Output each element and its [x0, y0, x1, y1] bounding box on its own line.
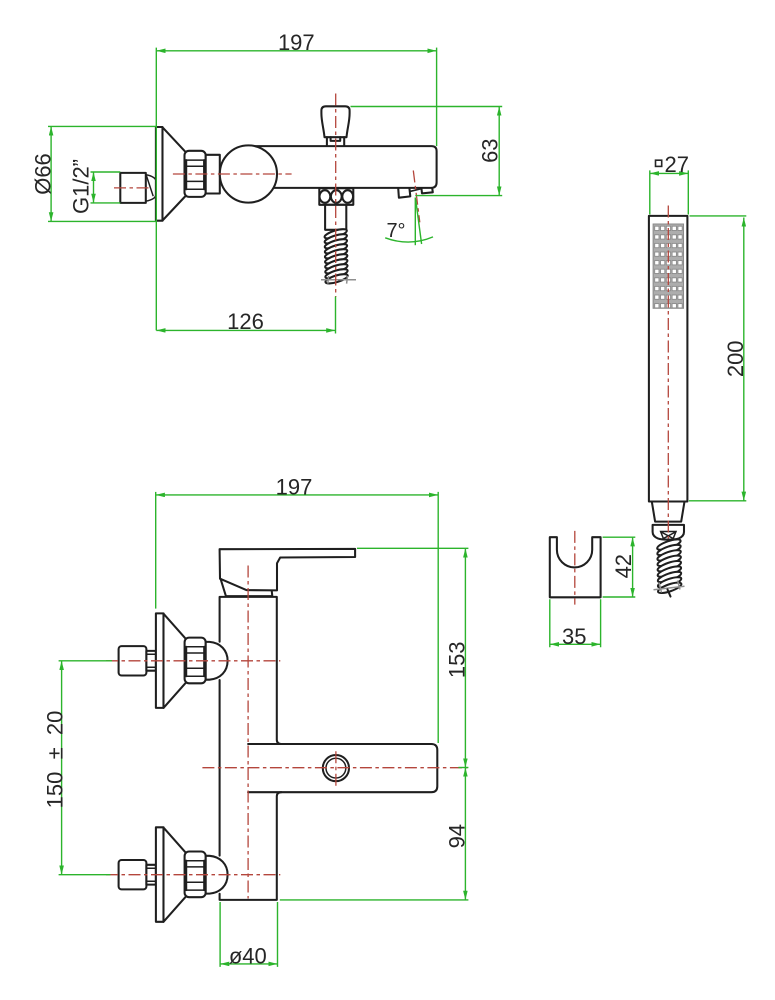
dim 153-94 junction tick: [458, 767, 468, 769]
escutcheon cone: [163, 127, 187, 220]
BRACKET: [550, 531, 601, 605]
dim diam40 extensions: [220, 902, 277, 967]
diverter knob: [321, 106, 349, 137]
nut inner cone: [661, 532, 676, 540]
svg-text:35: 35: [562, 624, 586, 649]
aerator: [323, 755, 349, 781]
lower inlet centerline: [106, 874, 280, 876]
svg-text:94: 94: [445, 824, 470, 848]
ball joint: [220, 145, 277, 202]
wand hose break symbol: [654, 581, 685, 593]
dim 63 line: [498, 107, 500, 196]
dim 35 line: [550, 643, 601, 645]
hose coupling: [319, 188, 353, 205]
spout axis centerline: [413, 171, 420, 223]
dim 200 extensions: [689, 216, 746, 501]
body column: [220, 597, 282, 900]
wand lower cone: [652, 502, 685, 522]
column centerline: [247, 566, 249, 899]
spout centerline: [202, 767, 467, 769]
body bar: [250, 146, 437, 188]
upper inlet adapter: [146, 651, 156, 671]
svg-text:7°: 7°: [386, 220, 405, 242]
dim 197 top line: [156, 50, 436, 52]
wall nipple G1/2: [120, 173, 146, 203]
spout bar: [248, 744, 437, 792]
dim 150pm20 line: [61, 661, 63, 875]
upper knurled nut: [185, 638, 206, 684]
wand coiled hose: [656, 537, 682, 595]
angle 7 reference vertical: [414, 198, 416, 246]
lower knurled nut: [185, 852, 206, 898]
svg-text:63: 63: [478, 138, 503, 162]
dim square27 line: [650, 172, 689, 174]
dim 94 bottom extension: [280, 899, 469, 901]
wand centerline: [667, 206, 669, 539]
svg-text:126: 126: [227, 309, 264, 334]
upper escutcheon cone: [164, 614, 187, 708]
spray face panel: [653, 224, 683, 308]
angle 7 arc: [385, 237, 433, 242]
handle collar: [221, 579, 273, 596]
svg-text:197: 197: [276, 474, 313, 499]
lower escutcheon plate: [156, 827, 164, 922]
dim 94 line: [464, 768, 466, 900]
dim 63 extensions: [351, 107, 503, 196]
hose break symbol: [321, 276, 356, 284]
dim 197 top left extension: [155, 48, 157, 331]
wand hose nut: [653, 525, 684, 540]
lower inlet adapter: [146, 865, 156, 885]
bracket centerline: [574, 531, 576, 605]
upper dome: [206, 642, 228, 680]
dim 42 line: [632, 537, 634, 597]
wall bracket: [550, 537, 601, 597]
dim diam40 line: [220, 963, 277, 965]
dim 197 top right extension: [436, 48, 438, 147]
dim 197 bottom right extension: [437, 492, 439, 743]
dim square27 extensions: [650, 170, 689, 214]
cylinder between nut and ball: [206, 155, 220, 194]
escutcheon plate: [156, 127, 163, 221]
dim 197 bottom line: [156, 494, 439, 496]
hose stem: [325, 205, 346, 230]
dim G1/2 extensions: [91, 172, 121, 203]
aerator centerline: [335, 751, 337, 787]
label square27: [656, 160, 662, 166]
svg-text:G1/2”: G1/2”: [69, 159, 94, 214]
dim 35 extensions: [550, 599, 601, 647]
upper inlet square fitting: [119, 646, 147, 675]
dim 150pm20 extensions: [59, 661, 112, 875]
handle cap and lever: [220, 549, 356, 591]
angle 7 slanted ray: [416, 199, 422, 244]
dim 153 extension top: [357, 547, 468, 549]
svg-text:ø40: ø40: [229, 943, 267, 968]
TOPVIEW: [114, 94, 437, 298]
svg-text:42: 42: [611, 554, 636, 578]
lower inlet square fitting: [119, 860, 147, 889]
dim 126 line: [156, 329, 335, 331]
svg-text:150 ± 20: 150 ± 20: [43, 711, 68, 809]
WAND: [649, 206, 688, 597]
nipple centerline: [114, 187, 152, 189]
svg-text:200: 200: [723, 340, 748, 377]
svg-text:27: 27: [665, 152, 689, 177]
knob stem: [327, 137, 344, 146]
FRONTVIEW: [106, 549, 468, 922]
knurled nut: [185, 151, 206, 197]
lower dome: [206, 856, 228, 894]
dim 126 right extension: [335, 297, 337, 334]
dim diam66 extensions: [48, 126, 156, 221]
svg-text:Ø66: Ø66: [31, 153, 56, 195]
knob and hose centerline: [335, 94, 337, 298]
spout mouth: [398, 188, 433, 198]
upper inlet centerline: [106, 660, 280, 662]
lower escutcheon cone: [164, 828, 187, 922]
nipple taper: [146, 175, 156, 202]
svg-text:197: 197: [278, 30, 315, 55]
dim G1/2 line: [93, 172, 95, 203]
dim diam66 line: [50, 126, 52, 221]
dim 42 extensions: [603, 537, 636, 597]
dim 153 line: [464, 548, 466, 767]
coiled hose: [324, 227, 349, 285]
dim 197 bottom left extension: [155, 492, 157, 609]
upper escutcheon plate: [156, 613, 164, 708]
svg-text:153: 153: [445, 641, 470, 678]
hand shower body: [649, 216, 688, 502]
body centerline: [173, 173, 292, 175]
dim 200 line: [743, 218, 745, 501]
